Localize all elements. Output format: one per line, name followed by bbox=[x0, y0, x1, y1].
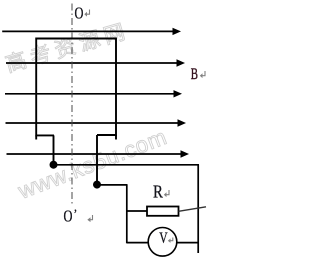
coil left lead wire bbox=[53, 135, 55, 164]
svg-text:B: B bbox=[191, 65, 198, 83]
field line 3 bbox=[5, 90, 182, 97]
svg-text:O: O bbox=[64, 208, 73, 226]
wire from left rail to voltmeter bbox=[127, 242, 149, 244]
wire from resistor to right rail (angled) bbox=[179, 207, 207, 212]
paragraph mark after V bbox=[168, 238, 173, 243]
field line 4 bbox=[6, 119, 187, 126]
wire from left rail to resistor bbox=[127, 210, 147, 212]
svg-text:O: O bbox=[75, 5, 84, 23]
field line 1 bbox=[2, 28, 181, 35]
svg-text:高考资源网: 高考资源网 bbox=[3, 20, 132, 77]
svg-text:R: R bbox=[153, 182, 163, 201]
paragraph mark after O bbox=[84, 10, 89, 17]
coil right lead wire bbox=[96, 135, 98, 185]
resistor R bbox=[147, 207, 179, 216]
paragraph mark after O' bbox=[87, 215, 92, 222]
wire from left dot to right rail (circuit top wire) bbox=[54, 164, 200, 166]
paragraph mark after B bbox=[200, 71, 205, 78]
watermark www.ks5u.com bbox=[14, 124, 171, 204]
coil bottom-left corner stub bbox=[35, 135, 37, 139]
field line 2 bbox=[6, 59, 185, 66]
field line 5 bbox=[7, 150, 190, 157]
junction dot right (slip ring) bbox=[93, 181, 101, 189]
watermark 高考资源网 bbox=[3, 20, 132, 77]
svg-text:V: V bbox=[159, 229, 167, 246]
voltmeter V (circle) bbox=[148, 228, 177, 257]
coil loop (rectangle with bottom gap) bbox=[36, 39, 116, 136]
rotation axis O-O' dash-dot line bbox=[71, 4, 73, 206]
junction dot left (slip ring) bbox=[50, 161, 58, 169]
wire left rail bbox=[126, 185, 128, 243]
wire from right dot to left rail bbox=[97, 184, 128, 186]
wire right rail bbox=[197, 165, 199, 253]
paragraph mark after R bbox=[164, 190, 169, 197]
svg-text:’: ’ bbox=[74, 206, 78, 221]
wire from voltmeter to right rail bbox=[177, 242, 198, 244]
coil bottom-right corner stub bbox=[115, 135, 117, 140]
